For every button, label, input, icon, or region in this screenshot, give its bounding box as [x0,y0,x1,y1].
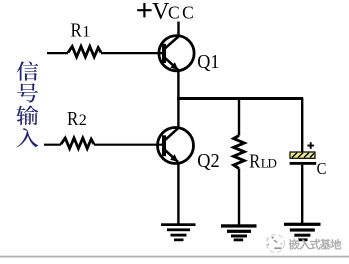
wire RLD to ground [238,169,240,226]
ground under RLD [221,224,257,241]
svg-text:2: 2 [79,112,87,129]
capacitor C (polarized) [290,142,317,165]
svg-text:LD: LD [261,156,277,171]
svg-text:C: C [317,159,327,178]
svg-text:R: R [249,151,261,173]
power label +Vcc [137,0,196,25]
wire rail down to RLD [238,99,240,136]
resistor RLD [234,136,245,169]
label RLD [249,151,276,173]
resistor R1 [47,46,163,57]
ground under C [284,223,321,242]
svg-text:R: R [71,20,83,42]
watermark text 嵌入式基地 [289,239,341,250]
wire Q1 emitter down to output rail [177,70,179,99]
svg-text:Q1: Q1 [197,51,219,73]
ground under Q2 [161,223,196,241]
wire capacitor to ground [301,165,303,224]
node: output rail [177,97,303,100]
transistor Q2 [158,128,194,164]
wire Q2 emitter to ground [177,163,179,225]
transistor Q1 [159,36,194,71]
watermark logo circle [267,235,285,253]
resistor R2 [44,138,163,149]
bottom separator line [0,256,349,258]
node: input label 信号输入 [16,61,38,147]
svg-text:Q2: Q2 [197,150,219,172]
svg-text:R: R [67,108,79,130]
svg-text:1: 1 [82,24,90,41]
svg-text:CC: CC [168,3,196,23]
label R2 [67,108,87,130]
wire Vcc to Q1 collector [177,22,179,38]
label R1 [71,20,91,42]
wire rail down to Q2 collector [177,99,179,128]
wire rail down to capacitor C [301,99,303,153]
